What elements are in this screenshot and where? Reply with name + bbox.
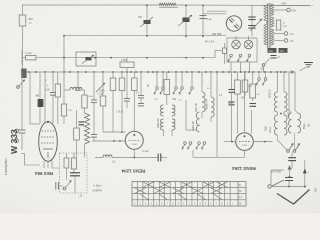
jack J1 (228, 54, 233, 72)
label 50k near x176 (173, 99, 178, 101)
brand text W333 (9, 129, 19, 154)
resistor R1 2M (19, 5, 26, 72)
capacitor C16 dark (250, 104, 257, 107)
trimmer capacitor C5 in box (82, 55, 94, 64)
tube V1 top cap node (47, 121, 49, 123)
wire top horizontal rail (22, 4, 310, 7)
label RE 054 (213, 32, 222, 36)
resistor R2 (215, 43, 227, 64)
label H05FFH (93, 190, 103, 193)
transformer T1 primary winding (264, 5, 267, 45)
capacitor C13 (138, 72, 144, 106)
IF transformer coils L7 (161, 105, 164, 136)
capacitor C12 (124, 72, 130, 108)
wire pickup vertical (288, 163, 292, 177)
choke L6 (211, 72, 214, 122)
jack J4 (154, 72, 159, 94)
label 3000 ohm rotated (268, 90, 272, 98)
resistor R7 (82, 90, 87, 108)
label lt Bem (94, 185, 102, 188)
wire rectifier heater (203, 11, 227, 14)
label 800 ohm rotated (287, 109, 291, 116)
label 0,2 near x182 (179, 100, 183, 102)
wire tube V1 bottom (47, 161, 49, 168)
switch S4 (261, 59, 270, 73)
output tube V1 RES964 envelope (39, 122, 58, 162)
IF transformer coils L8 (172, 105, 175, 136)
terminal CA upper (274, 32, 294, 36)
capacitor C4 smoothing stack (248, 6, 256, 37)
resistor R5 dark (36, 72, 44, 124)
wire tube V3 grid left (224, 141, 236, 143)
resistor R8 (74, 110, 80, 158)
tube V3 electrode marks (239, 135, 250, 147)
capacitor C18 pickup (285, 178, 293, 187)
terminal pickup (268, 185, 271, 188)
node y36 x186 (185, 35, 187, 37)
terminal CA lower (274, 39, 294, 43)
switch S2 contacts (182, 142, 192, 150)
dial lamp LP1 (232, 40, 241, 49)
resistor R20 dark series (21, 69, 26, 79)
bus junction nodes (21, 71, 286, 73)
wire vertical x217 (216, 72, 218, 157)
rectifier tube V4 (226, 16, 241, 31)
node top rail x147 (146, 4, 148, 6)
table cross marks (135, 182, 228, 200)
wire grid corner x30 (30, 72, 40, 124)
wire grid line y132 (103, 131, 126, 133)
inductor L3 zigzag (85, 108, 90, 158)
transformer T1 core (268, 3, 270, 48)
node top rail x203 (202, 5, 204, 7)
trimmer capacitor C2 (178, 15, 192, 26)
jack J7 (179, 72, 184, 94)
choke L5 (202, 72, 205, 118)
label RENS 1264 (inverted) (232, 166, 256, 171)
wire vertical x203 (202, 6, 204, 37)
wire tube V3 top feeds (238, 72, 252, 134)
wire main HT bus y72 (22, 70, 295, 73)
antenna coil L1 on top rail (159, 3, 178, 7)
label Bem 28 rotated (302, 124, 311, 129)
coil L2 coupling (64, 72, 85, 90)
coil L4 cathode (95, 155, 158, 164)
jack J3 (246, 54, 251, 72)
wire speaker link (278, 112, 285, 115)
resistor R16 600 (241, 72, 248, 100)
wire screen rail y57.5 (37, 57, 215, 59)
terminal jacks antenna/earth (15, 129, 19, 142)
label RENS 1204 (inverted) (121, 169, 145, 174)
label Reihe DR rotated (206, 99, 209, 110)
resistor R9 (98, 72, 106, 132)
tube V1 grid electrodes (41, 131, 55, 158)
label uF 0,005 (272, 171, 282, 174)
label 26 (80, 196, 83, 198)
resistor R13 (132, 72, 138, 131)
table bottom row figures (134, 204, 234, 206)
label 0,1 near x222 (219, 95, 223, 97)
capacitor C7 antenna (19, 130, 26, 133)
resistor R6 (55, 72, 60, 124)
wire vertical x186 (185, 6, 187, 37)
terminal GW socket (274, 8, 296, 12)
wire pickup bus (271, 186, 306, 188)
switch S8 (63, 181, 71, 190)
wire tube V1 top feeds (44, 72, 60, 168)
label 176 ohm (116, 110, 123, 114)
label 0,1uF (143, 150, 150, 153)
capacitor C14 dark (158, 154, 167, 162)
label 0,02 near x253 (256, 94, 261, 96)
label C 0,05 (45, 85, 50, 92)
label Reihe 09 rotated (157, 118, 160, 128)
node y36 x147 (146, 35, 148, 37)
trimmer capacitor C1 (138, 16, 153, 27)
label 2000 near x94 (88, 96, 94, 98)
wire pickup right arm (303, 166, 309, 187)
wire lamp LP1 feed (235, 36, 237, 41)
table row labels (239, 185, 243, 205)
label Geh 24+2 rotated (264, 126, 273, 133)
label 2M (29, 17, 34, 25)
coil L9 (196, 112, 199, 132)
label Reihe 08 rotated (192, 121, 195, 131)
resistor R19 (62, 90, 73, 124)
label 6300 near V3 (228, 103, 234, 105)
wire vertical x147 top (146, 5, 148, 36)
resistor R3 on secondary (276, 20, 287, 30)
voltage selector arrow (250, 19, 262, 31)
label 8V 0,2A (205, 41, 214, 44)
label 30 near x210 (207, 88, 210, 90)
label 302 rotated (314, 187, 318, 192)
wire S6 down (304, 160, 306, 166)
label Netz 08 rotated (195, 103, 198, 112)
node y36 x203 (202, 35, 204, 37)
jack J2 (237, 54, 242, 72)
capacitor C20 (56, 182, 63, 190)
capacitor C19 dark (70, 173, 80, 193)
label RES 964 (inverted) (34, 171, 53, 176)
capacitor C9 (75, 72, 81, 90)
brand text Lumophon (4, 158, 8, 175)
wire vertical x22 lower (21, 72, 23, 150)
resistor R12 1760 (120, 58, 134, 72)
node top rail x186 (185, 5, 187, 7)
capacitor C8 (50, 72, 56, 95)
transformer T1 secondary windings (271, 4, 274, 45)
jack J5 (160, 72, 165, 94)
tone network dashed box (60, 153, 88, 193)
wire horizontal y36 (64, 35, 226, 37)
label 0,1 near x158 (155, 99, 159, 101)
wire tube V2 cathode line (92, 140, 125, 142)
wire tube V3 cathode (193, 150, 245, 157)
switch S1 (17, 80, 25, 88)
wire grid return x28 (21, 154, 40, 166)
wire vertical x64 (63, 35, 65, 72)
dial lamp shield box (227, 38, 257, 62)
jack J8 (189, 72, 194, 94)
speaker transformer L11 secondary (284, 72, 287, 112)
capacitor C10 (91, 103, 97, 141)
label 0,1uF near x141 (136, 93, 140, 95)
capacitor C11 (91, 72, 97, 103)
label 0,5 near x245 (249, 86, 253, 88)
oscillator shield box (76, 52, 96, 66)
capacitor C21 dark (79, 122, 85, 125)
resistor R11 (119, 72, 125, 132)
trimmer capacitor C6 tuning (96, 83, 105, 92)
switch S7 pickup (272, 180, 284, 186)
wire tube V2 anode down (133, 149, 135, 157)
nodes screen rail (63, 57, 204, 59)
label u near x48 (46, 80, 48, 82)
wire pickup loop (271, 170, 284, 185)
IF tube V2 RENS1204 envelope (125, 131, 143, 149)
output tube V3 RENS1264 envelope (236, 133, 254, 151)
mains fuse block 220/110 (268, 48, 288, 53)
resistor R10 (110, 72, 116, 132)
switch S3 contacts (196, 142, 206, 150)
resistor R15 (235, 72, 241, 94)
capacitor C15 dark stack (229, 72, 235, 142)
ground chassis top right (300, 63, 314, 72)
resistor R18 (72, 153, 77, 173)
jack J10 (262, 72, 267, 85)
wire lamp LP2 feed (248, 36, 250, 41)
field coil L12 (275, 115, 287, 135)
wire IF link (186, 100, 197, 130)
resistor R21 (250, 72, 256, 101)
resistor R17 (64, 153, 69, 180)
switch S5 speaker (278, 135, 294, 152)
speaker plug bars (288, 152, 296, 163)
capacitor C3 (200, 16, 212, 22)
jack J9 (256, 72, 261, 85)
resistor R14 (164, 72, 170, 105)
wire tube V3 anode right (253, 141, 272, 143)
dial lamp LP2 (244, 40, 253, 49)
speaker transformer L10 primary (275, 72, 278, 112)
resistor R4 on screen rail (22, 50, 36, 65)
tube V2 electrode marks (129, 134, 141, 146)
chassis arrow V (277, 190, 310, 205)
coil switching table (132, 182, 246, 207)
capacitor C17 dark (271, 56, 281, 60)
switch S6 speaker (293, 133, 300, 152)
wire secondary tap GW (274, 2, 313, 6)
label 50 rotated (147, 84, 150, 87)
field coil L13 (289, 72, 301, 133)
jack J6 (173, 72, 178, 94)
